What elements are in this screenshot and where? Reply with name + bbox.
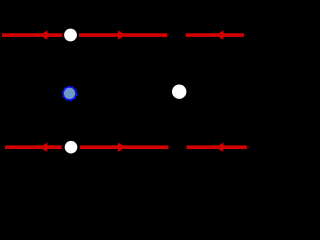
arrowhead: bottom-left, pointing left [40,143,48,152]
charge: middle blue circle inner fill [64,88,75,99]
wire: bottom field line middle segment [80,145,169,149]
wire: top field line left segment [2,33,62,37]
arrowhead: bottom-right, pointing left [216,143,224,152]
arrowhead: top-left, pointing left [40,30,48,39]
charge: middle blue circle outer ring (jagged pixel edge) [62,86,78,102]
charge: middle white circle [172,85,186,99]
charge: top black circle (negative, hidden on black) [170,29,183,42]
wire: top field line middle segment [79,33,167,37]
arrowhead: top-right, pointing left [216,30,224,39]
charge: bottom white circle (positive) [65,141,78,154]
wire: bottom field line right segment [186,145,246,149]
charge: top white circle (positive) [64,29,77,42]
wire: bottom field line left segment [5,145,62,149]
arrowhead: bottom-middle, pointing right [118,143,126,152]
arrowhead: top-middle, pointing right [118,30,126,39]
charge: bottom black circle (negative, hidden on black) [171,141,184,154]
wire: top field line right segment [186,33,244,37]
